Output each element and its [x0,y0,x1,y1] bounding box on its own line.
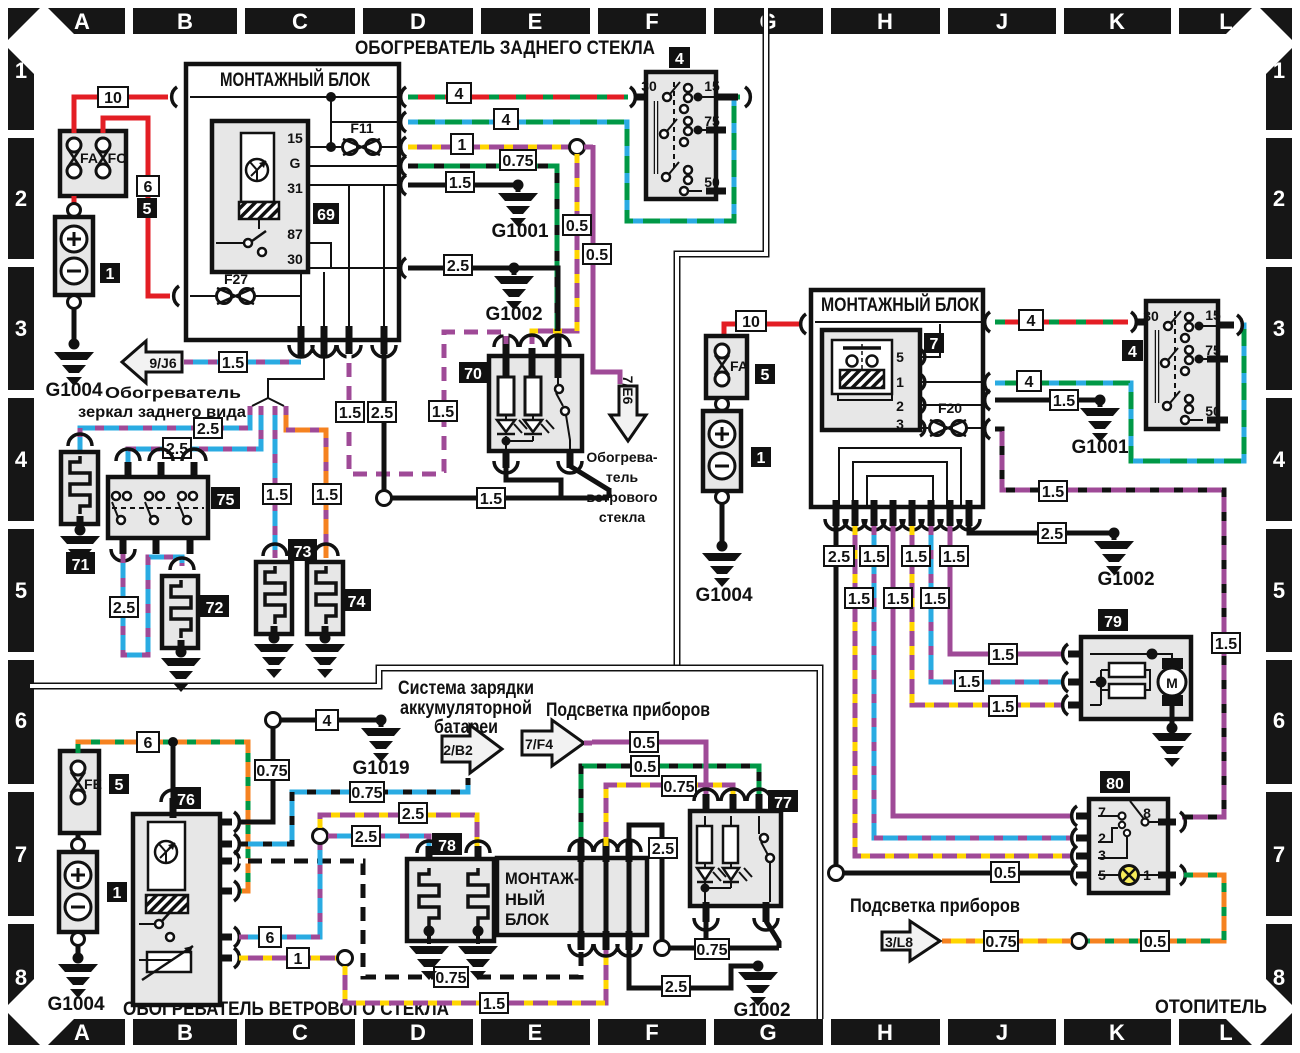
svg-text:J: J [996,1020,1008,1045]
label 4 [494,109,518,129]
connector arc MB1 left F27 row [174,286,179,306]
svg-text:1.5: 1.5 [483,996,505,1013]
svg-text:МОНТАЖНЫЙ БЛОК: МОНТАЖНЫЙ БЛОК [821,294,979,316]
label 6 [137,176,159,196]
svg-text:74: 74 [348,594,366,611]
wire red to battery [72,196,77,203]
svg-text:L: L [1219,1020,1232,1045]
box70 top pins [506,334,558,378]
svg-text:2: 2 [896,398,904,414]
svg-text:2/B2: 2/B2 [443,742,473,758]
svg-text:1.5: 1.5 [992,699,1014,716]
svg-text:1.5: 1.5 [1042,484,1064,501]
internal vertical to F11 [330,97,332,147]
label 2.5 [399,803,427,823]
svg-text:10: 10 [104,90,122,107]
left bar segment 7 [8,792,34,916]
label 0.5 [1141,931,1169,951]
svg-text:G1004: G1004 [45,380,102,401]
svg-text:4: 4 [675,51,684,68]
ground G1002 [494,276,534,310]
svg-text:ОБОГРЕВАТЕЛЬ ЗАДНЕГО СТЕКЛА: ОБОГРЕВАТЕЛЬ ЗАДНЕГО СТЕКЛА [355,38,655,59]
label 0.75 [255,760,289,780]
svg-text:Обогреватель: Обогреватель [105,385,241,402]
connector circle [377,491,392,506]
svg-text:4: 4 [15,447,28,472]
fan wire cyan/purple 1.5 to block80 pin2 [874,526,1072,838]
fan wire purple 1.5 to block79 pin1 [950,526,1064,654]
svg-text:D: D [410,9,426,34]
label 0.5 [991,862,1019,882]
svg-text:2.5: 2.5 [447,258,469,275]
label 80 [1100,771,1130,793]
wire green/black 0.5 MB3 to block77 pin3 [581,766,759,846]
left bar segment 8 [8,924,34,1005]
svg-text:78: 78 [438,838,456,855]
svg-text:1: 1 [113,885,122,902]
svg-text:H: H [877,1020,893,1045]
label 0.75 [350,782,384,802]
ignition2 internals [1143,307,1221,424]
svg-text:аккумуляторной: аккумуляторной [400,698,532,719]
junction dot [69,339,80,350]
label 74 [342,589,371,611]
wire row6 black 2.5 [408,268,558,331]
svg-text:Подсветка приборов: Подсветка приборов [850,896,1020,917]
stub into ignition2 [1136,319,1152,326]
right bar segment 1 [1266,48,1292,130]
wire black 1.5 to G1001 right [995,398,1100,403]
svg-text:1: 1 [1273,58,1285,83]
connector circle [338,951,353,966]
svg-text:F: F [645,1020,658,1045]
svg-text:4: 4 [1027,313,1036,330]
wire orange/purple 1.5 to comp74 [286,406,326,558]
svg-text:8: 8 [15,965,27,990]
svg-text:1.5: 1.5 [1053,393,1075,410]
connector circle [655,941,670,956]
svg-text:4: 4 [323,713,332,730]
fuse F20 [930,400,982,436]
MB1 bottom pins [301,326,384,356]
label 0.75 [695,939,729,959]
top bar segment L [1179,8,1252,34]
montage block MB2 [811,290,983,507]
label 2.5 [194,418,222,438]
bottom bar segment H [831,1019,940,1045]
label 70 [459,362,487,383]
svg-text:0.75: 0.75 [663,779,694,796]
svg-text:79: 79 [1104,614,1122,631]
MB2 bottom pins [836,500,969,526]
fan labels row1 [824,546,854,566]
svg-text:D: D [410,1020,426,1045]
svg-text:8: 8 [1273,965,1285,990]
relay76 top pin [171,745,176,798]
svg-text:1.5: 1.5 [432,404,454,421]
svg-text:тель: тель [606,469,639,485]
svg-text:J: J [996,9,1008,34]
top bar segment K [1064,8,1171,34]
svg-text:3: 3 [15,316,27,341]
repaint label 5 over red wire [137,198,157,218]
label 2.5 [444,255,472,275]
montage block MB3 [497,858,647,935]
fuse box FA right [706,336,747,398]
bottom bar segment G [714,1019,823,1045]
box70 bottom wiring [390,466,609,498]
top bar segment C [245,8,355,34]
MB3 top pins [581,842,629,862]
connector arc row4 [401,156,406,176]
wire yellow/purple 1 relay76 to node [239,956,337,961]
svg-text:1.5: 1.5 [905,549,927,566]
svg-text:3: 3 [1273,316,1285,341]
svg-text:0.5: 0.5 [634,759,656,776]
svg-text:K: K [1109,9,1125,34]
ground G1004 [54,352,94,386]
label 10 [736,311,766,331]
arrow 7/E6 [610,376,646,441]
label 0.75 [434,967,468,987]
label 6 [137,732,159,752]
section divider horizontal + right vertical [30,668,820,1019]
wire row1 red/green 4 [408,95,628,100]
bottom bar segment A [48,1019,125,1045]
pin G line [308,165,397,167]
wire row3 purple/yellow 1 [408,145,570,150]
wire orange/green 6 FE to relay76 [78,742,248,891]
svg-text:1.5: 1.5 [848,591,870,608]
svg-text:6: 6 [144,179,153,196]
svg-text:6: 6 [15,708,27,733]
svg-text:5: 5 [896,349,904,365]
fan labels row2 [845,588,873,608]
ground G1004 bottom [58,964,98,998]
svg-text:0.75: 0.75 [435,970,466,987]
wire yellow/orange 0.75 to 3/L8 [942,939,1071,944]
label 1 [287,948,309,968]
stub ignition2 pin15 [1218,322,1234,329]
wire cyan/purple 2.5 node to box78 pin1 [328,836,429,848]
label 2.5 [649,838,677,858]
left bar segment 5 [8,529,34,652]
svg-text:30: 30 [641,78,657,94]
right bar segment 8 [1266,924,1292,1005]
fuse box FA/FC [60,131,126,196]
fuse F27 [190,271,301,304]
pin 87 line [308,243,331,268]
svg-text:2.5: 2.5 [197,421,219,438]
connector node [716,491,729,504]
svg-text:1.5: 1.5 [992,647,1014,664]
svg-text:L: L [1219,9,1232,34]
wire black mirror net from pin2 [252,358,324,406]
connector arc row2 [401,87,751,132]
label 1.5 [446,172,474,192]
top bar segment F [598,8,706,34]
montage block MB1 [186,64,399,340]
text mirror heater [78,385,246,421]
component 75 mirror switch pack [108,449,208,561]
left bar segment 2 [8,138,34,259]
pin 31 line [308,184,397,186]
component 73 [254,544,294,678]
junction dot G1002 [509,263,520,274]
internal line row2 [331,97,397,122]
fuse FE [71,761,102,804]
ground G1001 [498,193,538,227]
ignition internals [641,78,720,195]
svg-text:71: 71 [72,557,90,574]
text charging system [398,678,534,738]
svg-text:Система зарядки: Система зарядки [398,678,534,699]
wire row5 black 1.5 to G1001 [408,183,518,188]
connector node [72,933,85,946]
svg-text:B: B [177,1020,193,1045]
bottom bar segment J [948,1019,1056,1045]
wire black 4 to G1019 [281,718,381,723]
svg-text:1.5: 1.5 [924,591,946,608]
svg-text:1.5: 1.5 [316,487,338,504]
svg-text:C: C [292,9,308,34]
right bar segment 5 [1266,529,1292,652]
wire orange/green 0.5 block80 pin1 [1087,875,1224,941]
repaint label 76 over pin wire [171,787,201,809]
label 69 [313,203,339,224]
svg-text:C: C [292,1020,308,1045]
right bar segment 4 [1266,398,1292,521]
MB2 bottom pin arcs [825,519,980,530]
ground G1004 right [702,553,742,587]
box70 pin arcs [494,335,570,347]
svg-text:6: 6 [144,735,153,752]
MB1 internal feed line row1 [190,96,397,98]
wire purple/black 1.5 MB2 to block80 pin8 [995,429,1224,817]
svg-text:стекла: стекла [599,509,646,525]
svg-text:G1002: G1002 [733,1000,790,1021]
svg-text:7: 7 [1273,842,1285,867]
svg-text:Обогрева-: Обогрева- [586,449,657,465]
fan wire purple 1.5 to block80 pin7 [893,526,1072,816]
label 0.75 [662,776,696,796]
svg-text:5: 5 [761,367,770,384]
svg-text:FC: FC [108,150,127,166]
wire battery to ground [72,309,77,344]
left bar segment 3 [8,267,34,390]
svg-text:15: 15 [704,78,720,94]
MB3 bottom pins [581,931,629,950]
wire cyan/purple 1.5 mirror feed [184,360,301,365]
svg-text:ОТОПИТЕЛЬ: ОТОПИТЕЛЬ [1155,997,1267,1018]
svg-text:69: 69 [317,207,335,224]
arrow 9/J6 [122,341,182,383]
ignition stubs 75 50 [706,130,726,191]
label 1 [451,134,473,154]
right bar segment 6 [1266,660,1292,784]
svg-text:15: 15 [287,130,303,146]
block80 heater switch [1072,799,1186,893]
wire red 6 [103,118,170,296]
label 10 [98,87,128,107]
relay76 internals [139,822,193,980]
lamp block 77 [690,789,781,930]
label 5 [109,774,129,794]
connector node battery bottom [68,296,81,309]
svg-text:0.75: 0.75 [351,785,382,802]
battery right [703,411,741,491]
top bar segment B [133,8,237,34]
label 2.5 [1038,523,1066,543]
label 4 [1017,371,1041,391]
svg-text:10: 10 [742,314,760,331]
label 5 [137,198,157,218]
stub into ignition [634,94,652,101]
label 2.5 [163,438,191,458]
fuse FA [715,344,748,386]
fan wire yellow/purple 1.5 to block80 pin3 [855,526,1072,856]
wire black 2.5 MB1 pin4 [382,354,387,491]
svg-text:K: K [1109,1020,1125,1045]
wire to ground [76,946,81,958]
svg-text:5: 5 [15,578,27,603]
relay 7 pin lines [920,324,981,428]
bottom bar segment D [363,1019,473,1045]
svg-text:1.5: 1.5 [1215,636,1237,653]
relay 69 switch [216,219,266,256]
svg-text:НЫЙ: НЫЙ [505,890,545,909]
svg-text:G1004: G1004 [695,585,752,606]
bottom bar segment E [481,1019,590,1045]
wire purple/white MB1 pin3 to box70 [349,332,506,474]
connector arcs row1 [401,87,636,107]
junction dot [717,541,728,552]
block79 resistor+motor unit [1063,637,1192,767]
wire black 0.75 relay76 to node [239,727,273,822]
label 1.5 [313,484,341,504]
ignition2 stubs 75 50 [1207,359,1228,420]
svg-text:5: 5 [115,777,124,794]
svg-text:77: 77 [774,795,792,812]
component 74 [305,544,345,678]
svg-text:E: E [528,9,543,34]
label 1 [751,447,771,467]
svg-text:G1001: G1001 [491,221,548,242]
svg-text:2: 2 [1098,830,1106,846]
svg-text:F27: F27 [224,271,248,287]
junction dot [376,715,387,726]
label 4 [669,47,690,68]
svg-text:F20: F20 [938,400,962,416]
corner triangle bottom-left [8,1013,40,1045]
svg-text:1.5: 1.5 [863,549,885,566]
svg-text:G1002: G1002 [485,304,542,325]
box70 resistors [498,377,514,415]
MB2 internal feed row [815,321,981,323]
svg-text:7: 7 [1098,804,1106,820]
ground G1019 [361,728,401,762]
junction connector circle [570,140,585,155]
svg-text:G1002: G1002 [1097,569,1154,590]
junction dot G1002 [753,961,764,972]
wire yellow/purple 0.75 MB3 to block77 pin2 [606,785,733,846]
svg-text:1: 1 [294,951,303,968]
svg-text:2.5: 2.5 [402,806,424,823]
label 1.5 [336,402,364,422]
label 6 [259,927,281,947]
label 1.5 [263,484,291,504]
relay76 right pins [218,822,232,958]
svg-text:7: 7 [15,842,27,867]
svg-text:F: F [645,9,658,34]
pin 15 line [308,146,341,148]
wire purple 0.5 to 7/E6 [584,145,620,384]
label 1.5 [1050,390,1078,410]
connector arc row6 [401,258,406,278]
svg-text:5: 5 [143,201,152,218]
svg-text:4: 4 [1273,447,1286,472]
connector arc row3 [401,137,406,157]
label 1 [100,263,120,283]
arrow 2/B2 [442,725,502,773]
svg-text:A: A [74,1020,90,1045]
label 4 [1019,310,1043,330]
wire purple 0.5 7/F4 to block77 pin1 [584,742,706,798]
svg-text:G: G [290,155,301,171]
svg-text:4: 4 [455,86,464,103]
label 79 [1098,609,1128,631]
junction dot [326,92,336,102]
fuse box FE [60,751,99,833]
label 0.5 [583,244,611,264]
label 4 [1122,340,1143,361]
label 75 [211,487,240,509]
svg-text:2.5: 2.5 [828,549,850,566]
text windshield heater note [586,449,657,525]
MB2 right exit arcs [985,312,990,439]
ground G1001 right [1080,408,1120,442]
label 73 [288,539,317,561]
label 2.5 [368,402,396,422]
svg-text:1.5: 1.5 [266,487,288,504]
fan wire yellow/purple 1.5 to block79 pin3 [912,526,1064,705]
relay 76 box [133,814,220,1005]
junction dot [1095,395,1106,406]
wire green/cyan 4 loop right [995,325,1244,461]
svg-text:0.75: 0.75 [502,153,533,170]
label 0.75 [500,150,536,170]
svg-text:75: 75 [217,492,235,509]
svg-text:E: E [528,1020,543,1045]
connector circle [266,713,281,728]
svg-text:1: 1 [896,374,904,390]
svg-text:1.5: 1.5 [449,175,471,192]
svg-text:30: 30 [287,251,303,267]
label 2.5 [110,597,138,617]
bottom bar segment C [245,1019,355,1045]
relay 7 internals [832,340,892,400]
relay76 pin arcs [234,812,239,968]
label 0.5 [563,215,591,235]
svg-text:0.5: 0.5 [633,735,655,752]
label 0.5 [630,732,658,752]
wire cyan/black 0.75 to 2/B2 [239,778,468,844]
fuse FA [67,138,98,178]
connector arc [1131,312,1136,332]
svg-text:4: 4 [1025,374,1034,391]
ground G1002 bottom [738,972,778,1006]
svg-text:A: A [74,9,90,34]
